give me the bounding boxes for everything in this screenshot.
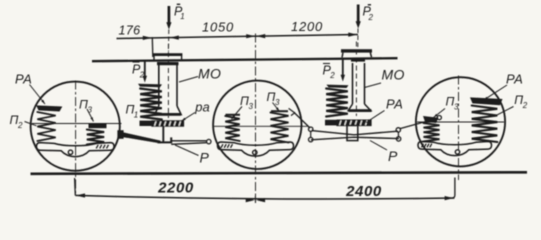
- motor MO2 centerline: [355, 42, 357, 117]
- dim arrows 1050 segment: [246, 34, 255, 38]
- wheel2 right bracket: [289, 108, 295, 115]
- svg-text:176: 176: [118, 23, 140, 37]
- leader Р (motor1): [175, 145, 199, 156]
- lever pin at wheel 1: [117, 130, 123, 139]
- force arrow P1: [168, 6, 171, 24]
- dim arrows 1200 segment: [256, 34, 265, 38]
- svg-text:РА: РА: [15, 72, 32, 87]
- spring П3 left top plate (wheel2): [226, 114, 241, 116]
- spring bottom plate + hatched bar (motor1): [140, 121, 184, 126]
- bottom dim ticks: [74, 178, 77, 195]
- wheel 3 vertical centerline: [458, 76, 460, 181]
- tapered lever wheel1 to bracket: [123, 132, 160, 143]
- rubber damper plate РА (wheel3 right): [470, 97, 503, 105]
- spring П3 top plate (wheel1): [89, 123, 107, 128]
- diagonal link to wheel3: [400, 118, 438, 128]
- wheel 3 equalizer beam: [418, 142, 492, 156]
- leader РА (motor2): [366, 111, 385, 123]
- svg-text:1: 1: [134, 111, 138, 120]
- svg-text:3: 3: [88, 106, 93, 115]
- motor MO1 cap side posts: [153, 56, 155, 61]
- motor MO1 skirt: [155, 106, 182, 115]
- small force arrow onto spring (motor1): [144, 61, 146, 78]
- svg-text:2200: 2200: [157, 180, 194, 197]
- svg-text:1: 1: [180, 12, 184, 21]
- drop link verticals (beam ends): [310, 131, 312, 137]
- leader П2 wheel3: [494, 107, 514, 117]
- spring П3 right top plate (wheel2): [271, 110, 288, 112]
- svg-text:2: 2: [522, 101, 528, 110]
- svg-text:2400: 2400: [345, 183, 382, 200]
- svg-text:2: 2: [17, 121, 23, 130]
- svg-text:Р: Р: [388, 148, 398, 164]
- leader П3 wheel1: [87, 109, 94, 122]
- svg-text:2: 2: [329, 71, 335, 80]
- coil spring П1 (motor1): [140, 89, 162, 120]
- extension tick at x=152: [151, 37, 154, 57]
- svg-text:2: 2: [368, 13, 374, 22]
- motor MO1 cap bar: [153, 53, 183, 56]
- svg-text:Р: Р: [200, 150, 210, 166]
- wheel 1 horizontal centerline: [32, 123, 122, 125]
- spring top plate (motor2): [327, 85, 349, 88]
- wheel 2 horizontal centerline: [214, 125, 309, 127]
- dim arrows 176 segment: [143, 36, 152, 40]
- wheel 1: [31, 82, 120, 171]
- leader Р (motor2): [370, 141, 387, 151]
- coil spring П3 (wheel2 left): [225, 116, 239, 141]
- link bracket to wheel 2: [171, 140, 206, 142]
- link pin circle: [207, 139, 211, 143]
- rail line: [31, 172, 528, 174]
- damper wedge П3 top (wheel3 left): [423, 116, 439, 123]
- motor MO1 centerline: [167, 44, 169, 118]
- leader П3 wheel3: [434, 109, 446, 118]
- motor MO2 skirt: [348, 104, 371, 111]
- spring P1 top plate (motor1): [138, 84, 162, 87]
- svg-text:ра: ра: [194, 100, 209, 115]
- leader ра: [182, 113, 196, 122]
- svg-text:1200: 1200: [291, 19, 323, 34]
- wheel 2 equalizer beam: [218, 142, 294, 156]
- coil spring П3 (wheel1 right): [87, 130, 104, 145]
- frame (bolster) line: [92, 58, 398, 61]
- leader МО2: [365, 83, 382, 88]
- coil spring П3 (wheel2 right): [271, 113, 289, 143]
- motor MO2 cap side posts: [342, 53, 343, 58]
- leader РА wheel3: [484, 85, 508, 100]
- rubber damper wedge (wheel1 left, РА): [36, 105, 62, 111]
- beam end pins: [309, 127, 313, 131]
- coil spring П1 (motor2): [326, 89, 348, 117]
- coil spring П3 (wheel3 left): [424, 123, 440, 142]
- svg-text:МО: МО: [382, 67, 405, 83]
- diagonal link to wheel2: [294, 112, 310, 128]
- svg-text:РА: РА: [386, 97, 403, 112]
- motor MO1 body: [158, 65, 160, 106]
- wheel 1 vertical centerline: [75, 81, 77, 195]
- bottom dimension line: [75, 195, 454, 199]
- svg-text:3: 3: [275, 98, 280, 107]
- beam (motor2 support) spindle: [312, 131, 399, 135]
- wheel 2 vertical centerline: [255, 34, 257, 200]
- svg-text:3: 3: [454, 103, 459, 112]
- svg-text:1050: 1050: [202, 20, 234, 35]
- leader П2 wheel1: [25, 122, 37, 126]
- wheel 1 equalizer beam: [37, 143, 115, 157]
- wheel3 left pin circle: [437, 116, 441, 120]
- leader МО1: [179, 77, 198, 83]
- svg-text:МО: МО: [198, 66, 221, 82]
- leader П3 right wheel2: [273, 103, 280, 112]
- wheel 3: [416, 77, 505, 166]
- top dimension line: [117, 35, 359, 39]
- hanger block (motor2): [347, 125, 358, 140]
- svg-text:3: 3: [249, 102, 254, 111]
- svg-text:РА: РА: [506, 72, 523, 87]
- coil spring П2 (wheel3 right): [472, 106, 498, 143]
- motor MO2 body: [352, 63, 354, 104]
- leader П3 left wheel2: [232, 107, 243, 120]
- coil spring П2 (wheel1 left): [37, 112, 55, 141]
- wheel 3 horizontal centerline: [417, 121, 504, 123]
- small force arrow onto spring (motor2): [342, 59, 344, 76]
- spring bottom plate + hatched bar (motor2): [325, 120, 371, 126]
- force arrow P2 top: [357, 5, 360, 24]
- leader РА wheel1: [30, 85, 46, 105]
- wheel 2: [213, 81, 301, 169]
- motor MO2 cap bar: [341, 49, 372, 52]
- hanger bracket (motor1): [162, 126, 164, 142]
- bottom dim arrows: [76, 193, 85, 197]
